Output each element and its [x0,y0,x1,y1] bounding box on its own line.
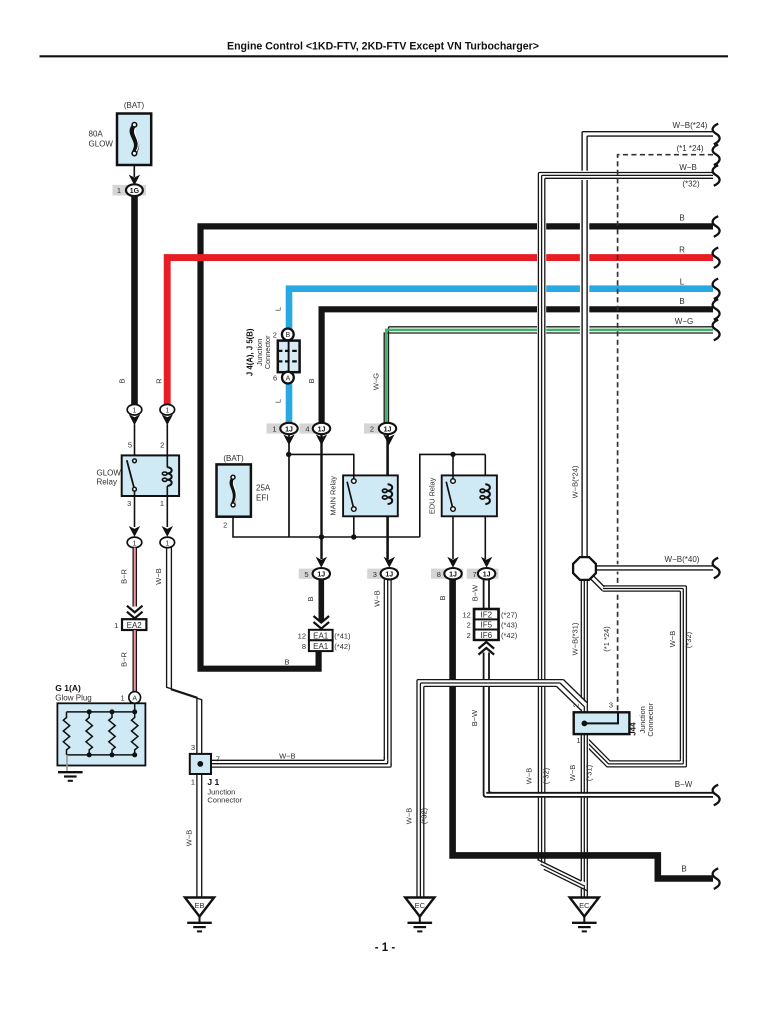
MAIN Relay [328,475,398,516]
svg-text:L: L [274,307,283,311]
wire right loop: node diagonal to right side down to J44 bottom loop [581,574,686,767]
svg-text:1J: 1J [384,426,392,433]
wire H3 B-W pair corner to right edge [486,793,713,797]
svg-text:EA1: EA1 [313,631,329,640]
svg-text:(*1 *24): (*1 *24) [602,626,611,652]
svg-text:4: 4 [305,425,309,434]
svg-text:IF6: IF6 [481,631,493,640]
svg-text:B: B [307,378,316,383]
junction dots on relay bus [286,452,356,540]
svg-text:(*27): (*27) [501,611,518,620]
svg-text:W−B(*24): W−B(*24) [673,121,708,130]
wire R red: from right edge to GLOW relay pin2 [167,258,713,405]
wire (*1 *24) dashed: right edge to J44 pin3 [618,155,713,711]
svg-text:B−W: B−W [470,584,479,601]
svg-text:W−B: W−B [184,830,193,846]
wire W-B(*31) triple below node through J44 to EC ground [581,578,587,898]
svg-text:W−B: W−B [679,163,697,172]
svg-text:1J: 1J [317,572,325,579]
svg-text:(*32): (*32) [420,807,429,824]
svg-text:B: B [285,332,290,339]
svg-text:R: R [154,378,163,384]
svg-text:W−B: W−B [525,768,534,784]
svg-text:MAIN Relay: MAIN Relay [328,476,337,516]
wire B thick 5-1J to EA1 with chevron [314,579,330,629]
svg-text:(*32): (*32) [542,767,551,784]
svg-text:2: 2 [467,621,471,630]
svg-text:2: 2 [571,703,580,707]
svg-text:(*42): (*42) [501,631,518,640]
wire W-B from GLOW relay pin1 to J1 junction connector [167,548,202,754]
wire B thick upper: from right edge to GLOW relay column x200 down to EA1 [201,226,714,668]
title: Engine Control header [40,41,729,57]
svg-text:Engine Control <1KD-FTV, 2KD-F: Engine Control <1KD-FTV, 2KD-FTV Except … [227,41,539,53]
svg-text:W−B(*31): W−B(*31) [571,622,580,655]
svg-text:W−G: W−G [675,317,693,326]
svg-text:EA1: EA1 [313,642,329,651]
svg-text:2: 2 [160,441,164,450]
svg-text:(*31): (*31) [585,764,594,781]
svg-text:J 4(A), J 5(B): J 4(A), J 5(B) [245,328,254,376]
svg-text:W−B: W−B [668,631,677,647]
svg-text:B: B [438,595,447,600]
svg-text:12: 12 [298,632,306,641]
svg-text:5: 5 [304,570,308,579]
wire H1 W-B triple: corner x417-422 down to EC1, right to diagonal into J44 top [417,680,587,898]
ground EC left [405,898,434,932]
glow plug G1(A) [55,683,145,766]
ground EB [185,898,214,932]
connector IF2/IF5/IF6 [462,609,517,655]
wire from EFI fuse to relay bus [233,517,420,537]
svg-text:W−B: W−B [568,765,577,781]
svg-text:(*1 *24): (*1 *24) [676,144,703,153]
svg-text:1: 1 [191,778,195,787]
wire W-B from J1 pin1 to EB ground [197,774,202,898]
svg-text:(*32): (*32) [684,631,693,648]
svg-text:Connector: Connector [207,796,242,805]
wire W-B triple from 1J pin3 down to corner (to J1 pin7) [384,579,391,765]
right edge wire name labels [665,121,708,874]
svg-text:IF2: IF2 [481,611,493,620]
svg-text:7: 7 [216,755,220,764]
svg-text:A: A [132,695,137,702]
svg-text:6: 6 [273,373,277,382]
svg-text:Connector: Connector [646,702,655,736]
svg-text:1: 1 [576,736,580,745]
wire bus up to EDU relay [420,454,486,559]
svg-text:2: 2 [467,631,471,640]
svg-text:W−B: W−B [279,752,295,761]
wire B thick from 1G to GLOW relay [131,196,138,405]
svg-text:1: 1 [160,499,164,508]
svg-text:EFI: EFI [256,494,268,503]
connector EA1 pins 12/8 [298,630,351,651]
svg-text:(BAT): (BAT) [124,101,145,110]
GLOW Relay [97,441,180,548]
svg-text:B−W: B−W [470,709,479,726]
svg-text:1J: 1J [385,572,393,579]
svg-text:8: 8 [302,642,306,651]
wire W-B(*24) pair: right edge to vertical x582-587 down to node [582,132,713,558]
svg-text:7: 7 [473,570,477,579]
svg-text:1: 1 [114,621,118,630]
svg-text:1: 1 [272,425,276,434]
node octagon junction [573,557,596,580]
svg-text:1: 1 [121,693,125,702]
svg-text:IF5: IF5 [481,621,493,630]
svg-text:J44: J44 [629,722,638,736]
svg-text:1J: 1J [483,572,491,579]
svg-text:EA2: EA2 [127,621,143,630]
svg-text:1J: 1J [449,572,457,579]
ground EC right [570,898,599,932]
svg-text:B: B [679,297,684,306]
svg-text:1: 1 [117,186,121,195]
svg-text:EB: EB [194,901,204,910]
svg-text:L: L [274,399,283,403]
svg-text:1J: 1J [318,426,326,433]
wire W-B/(*32) triple: right edge to vertical x538-545 down (P2) [538,173,713,871]
svg-text:B: B [117,378,126,383]
svg-text:1: 1 [133,540,137,547]
svg-text:B−R: B−R [119,569,128,584]
junction connector J4(A) J5(B) [245,328,299,383]
svg-text:Connector: Connector [263,335,272,369]
squiggle continuation symbols at right edge [713,124,720,889]
svg-text:W−B: W−B [154,568,163,584]
connector EA2 pin1 [114,619,146,630]
svg-text:GLOW: GLOW [89,140,114,149]
svg-text:GLOW: GLOW [97,468,122,477]
connector row 1J bottom (pins 5,3,8,7) [299,557,499,580]
svg-text:W−B(*40): W−B(*40) [665,555,700,564]
svg-text:3: 3 [191,743,195,752]
wire W-G green: from right edge to 1J pin2 [384,327,713,424]
junction connector J1 [190,743,243,805]
svg-text:12: 12 [462,611,470,620]
wire B thick mid: from right edge to 1J pin4 [322,309,713,424]
svg-text:3: 3 [373,570,377,579]
svg-text:2: 2 [223,520,227,529]
wire thick through MAIN relay coil (2-1J to 3-1J) [386,434,389,559]
svg-text:R: R [679,246,685,255]
svg-text:3: 3 [127,499,131,508]
wire from 1J pin1 down with branch to MAIN relay switch [289,434,354,537]
wire B-W pair from 1J pin7 through IF boxes down to corner [484,579,492,797]
svg-text:B: B [284,658,289,667]
ground below glow plug [58,755,83,781]
svg-text:B−R: B−R [119,652,128,667]
fuse 25A EFI (BAT) [217,454,271,530]
svg-text:EDU Relay: EDU Relay [427,477,436,514]
svg-text:(*32): (*32) [682,180,700,189]
svg-text:L: L [680,277,685,286]
rotated wire labels [117,307,693,846]
wire B thick from 8-1J down then right to edge (bottom B) [453,579,713,879]
svg-text:B−W: B−W [675,780,693,789]
wire H2 W-B triple: J1 pin7 to corner up to 3-1J [211,757,391,767]
svg-text:1J: 1J [285,426,293,433]
junction connector J44 [571,701,655,746]
svg-text:(BAT): (BAT) [223,454,244,463]
svg-text:W−G: W−G [372,373,381,390]
svg-text:EC: EC [579,901,590,910]
wire W-B(*40) pair from node to right edge [596,566,714,570]
svg-text:EC: EC [415,901,426,910]
svg-text:(*43): (*43) [501,621,518,630]
connector row 1J top (pins 1,4,2) [267,423,397,445]
svg-text:B: B [306,596,315,601]
svg-text:1: 1 [165,540,169,547]
svg-text:1: 1 [165,408,169,415]
svg-text:80A: 80A [89,130,104,139]
svg-text:G 1(A): G 1(A) [55,683,81,693]
svg-text:1G: 1G [130,188,140,195]
svg-text:2: 2 [370,425,374,434]
svg-text:Relay: Relay [97,477,117,486]
svg-text:W−B: W−B [372,590,381,606]
svg-text:W−B(*24): W−B(*24) [571,465,580,498]
wire B-R from EA2 to glow plug [133,630,136,692]
connector ovals above GLOW relay [127,404,174,455]
wire B-R from GLOW relay pin3 to EA2 [127,548,143,619]
svg-text:(*41): (*41) [334,632,351,641]
fusible link 80A GLOW (BAT) [89,101,152,177]
svg-text:5: 5 [128,441,132,450]
wire L blue: from right edge to J4 connector and 1J pin1 [289,289,713,424]
svg-text:3: 3 [609,701,613,710]
svg-text:25A: 25A [256,484,271,493]
svg-text:- 1 -: - 1 - [375,942,396,954]
svg-text:B: B [681,865,686,874]
EDU Relay [427,475,497,516]
wire from 1J pin4 down to 5-1J [320,434,322,559]
svg-text:A: A [286,375,291,382]
svg-text:Glow Plug: Glow Plug [55,694,91,703]
svg-text:B: B [679,214,684,223]
svg-text:2: 2 [273,330,277,339]
svg-text:J 1: J 1 [207,777,219,787]
svg-text:W−B: W−B [404,808,413,824]
wire P2 merge diagonal into EC2 [537,860,587,891]
connector 1G pin1 [113,175,147,197]
svg-text:(*42): (*42) [334,642,351,651]
svg-text:1: 1 [133,408,137,415]
svg-text:8: 8 [437,570,441,579]
